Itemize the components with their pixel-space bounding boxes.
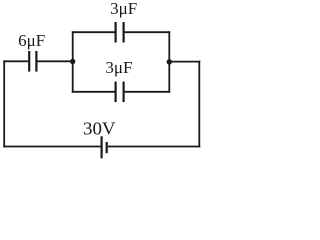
battery B1 short plate <box>106 142 108 153</box>
wire: right rail vertical <box>198 61 200 148</box>
battery B1 long plate <box>100 136 102 158</box>
node B junction dot <box>167 59 172 64</box>
node A junction dot <box>70 59 75 64</box>
capacitor C1 6uF plates <box>29 51 36 72</box>
svg-text:30V: 30V <box>83 118 116 138</box>
wire: parallel box left vertical <box>72 31 74 92</box>
wire: node B to right rail <box>169 61 200 63</box>
wire: box top branch left of C2 <box>72 31 115 33</box>
svg-text:6μF: 6μF <box>18 31 45 50</box>
wire: box top branch right of C2 <box>125 31 171 33</box>
wire: box bottom branch left of C3 <box>72 91 115 93</box>
capacitor C2 3uF plates (top branch) <box>116 22 124 43</box>
wire: left rail vertical <box>3 60 5 147</box>
wire: box bottom branch right of C3 <box>125 91 171 93</box>
svg-text:3μF: 3μF <box>105 58 132 77</box>
wire: C1 to node A <box>37 60 73 62</box>
wire: left rail to C1 (top-left horizontal) <box>3 60 28 62</box>
wire: bottom right of battery <box>108 146 200 148</box>
wire: bottom left of battery <box>3 146 100 148</box>
svg-text:3μF: 3μF <box>110 0 137 18</box>
capacitor C3 3uF plates (bottom branch) <box>116 82 124 103</box>
wire: parallel box right vertical <box>168 31 170 92</box>
